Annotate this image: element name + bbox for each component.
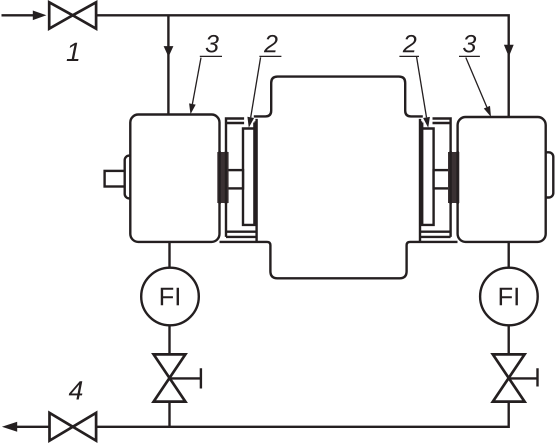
bearing housing 3 (left): [130, 115, 219, 242]
pump central casing body: left seal chamber edge: [255, 119, 257, 242]
pump central casing body: right seal chamber edge: [419, 119, 421, 242]
seal cartridge wall over bar (right): [449, 151, 451, 204]
shaft stub (left, protruding): [105, 171, 128, 187]
seal cartridge 2 (left): stationary ring rectangle: [243, 123, 257, 225]
pump central casing body: top outline: [254, 77, 423, 117]
seal cartridge wall over bar (left): [225, 151, 227, 204]
valve handle (right): [509, 368, 538, 386]
leader arrowhead 3 (right): [484, 106, 491, 117]
label 2 (right): [403, 35, 417, 52]
wire: top pipe from valve 1 to right drop: [96, 15, 509, 117]
seal cartridge 2 (right): stationary ring rectangle: [420, 123, 434, 225]
wire: housing edge over bar (left): [218, 151, 220, 204]
leader line for label 3 (right): [459, 56, 487, 107]
leader line for label 2 (left): [251, 56, 282, 117]
wire: right FI to valve: [508, 325, 510, 354]
flow indicator FI (left): [141, 268, 199, 326]
label 1: [67, 43, 79, 61]
shaft section dark bar (right): [448, 152, 459, 203]
label 2 (left): [264, 35, 278, 52]
FI text (left): [161, 288, 179, 306]
seal cartridge 2 (left): gland box outline: [226, 119, 257, 237]
seal cartridge 2 (right): gland box outline: [420, 119, 451, 237]
pump central casing body: bottom outline with shoulders: [220, 242, 458, 278]
leader arrowhead 2 (right): [423, 117, 430, 128]
label 3 (left): [206, 35, 219, 53]
flow arrowhead: left drop: [164, 46, 174, 57]
wire: housing edge over bar (right): [456, 151, 458, 204]
wire: left housing to flow indicator: [168, 242, 170, 268]
valve 1 (inlet, horizontal globe valve): [49, 2, 96, 28]
flow arrowhead: outlet: [2, 422, 17, 432]
leader arrowhead 2 (left): [247, 117, 254, 128]
leader line for label 3 (left): [192, 56, 222, 104]
wire: left drop from top pipe to left bearing housing: [167, 15, 169, 114]
wire: outlet line: [17, 426, 50, 428]
bearing end cap (left): [125, 156, 137, 199]
wire: left valve to bottom pipe: [168, 402, 170, 427]
flow indicator FI (right): [480, 268, 538, 326]
FI text (right): [500, 288, 518, 306]
bearing end cap (right bump): [539, 152, 553, 197]
wire: inlet line: [2, 14, 34, 16]
wire: left FI to valve: [168, 325, 170, 354]
valve handle (left): [170, 368, 201, 388]
valve 4 (outlet, horizontal globe valve): [50, 413, 97, 441]
shaft section dark bar (left): [217, 152, 228, 203]
bearing housing 3 (right): [458, 117, 546, 242]
label 3 (right): [463, 35, 476, 53]
valve (left drain, vertical globe valve): [154, 354, 186, 401]
valve (right drain, vertical globe valve): [493, 354, 525, 401]
seal cartridge 2 (left): spring crossbar: [226, 170, 243, 188]
label 4: [69, 381, 83, 399]
flow arrowhead: right drop: [504, 45, 514, 57]
leader line for label 2 (right): [399, 56, 426, 117]
wire: right housing to flow indicator: [508, 242, 510, 268]
seal cartridge 2 (right): spring crossbar: [434, 170, 451, 188]
flow arrowhead: inlet: [33, 11, 47, 21]
leader arrowhead 3 (left): [189, 103, 196, 114]
wire: bottom pipe from right valve to valve 4: [96, 402, 509, 427]
